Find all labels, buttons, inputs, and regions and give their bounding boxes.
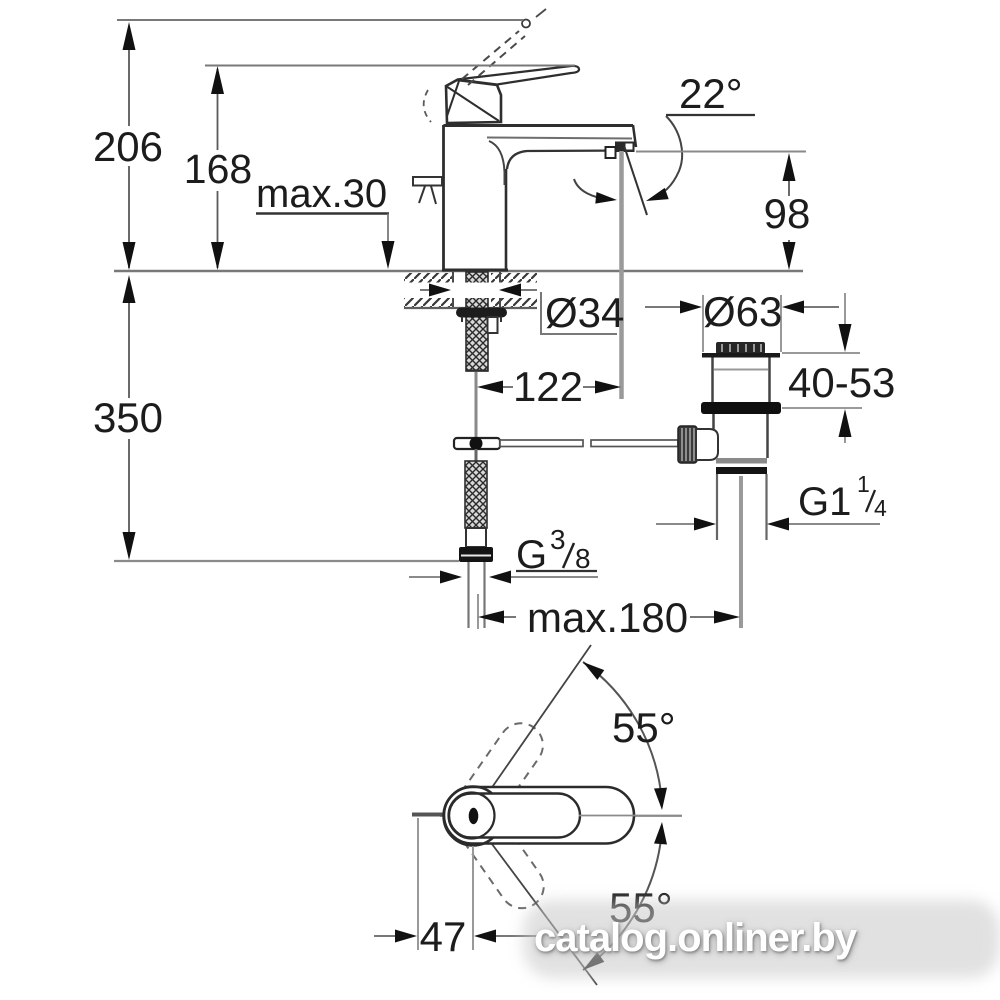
svg-text:168: 168 bbox=[184, 146, 252, 192]
shank washer bbox=[456, 308, 507, 323]
svg-text:22°: 22° bbox=[679, 70, 743, 117]
dimension G1 1/4 bbox=[656, 471, 887, 531]
horizontal linkage rod bbox=[500, 440, 678, 447]
svg-text:max.180: max.180 bbox=[527, 594, 688, 641]
counter cross-section hatching right bbox=[491, 273, 537, 307]
hose nut G3/8 bbox=[459, 547, 493, 562]
mounting hole edges bbox=[453, 272, 500, 307]
flexible hose bbox=[465, 461, 487, 528]
spout underside bbox=[489, 141, 634, 185]
dimension 98 bbox=[636, 152, 810, 271]
svg-text:Ø63: Ø63 bbox=[703, 288, 782, 335]
handle swing arc (dashed) bbox=[424, 90, 431, 122]
top view handle inner pill bbox=[449, 794, 580, 838]
handle lever bbox=[457, 66, 579, 85]
dimension 55 degrees lower bbox=[609, 884, 673, 931]
dimension 22 degrees bbox=[646, 70, 755, 201]
svg-text:40-53: 40-53 bbox=[788, 359, 895, 406]
svg-text:4: 4 bbox=[874, 495, 887, 521]
top view inner ring bbox=[449, 793, 495, 839]
svg-text:max.30: max.30 bbox=[256, 172, 387, 216]
dimension 40-53 bbox=[782, 293, 895, 443]
faucet body bbox=[442, 125, 508, 271]
svg-text:206: 206 bbox=[93, 123, 163, 170]
dimension 206 bbox=[93, 20, 523, 270]
top view center line bbox=[440, 815, 682, 817]
drain gasket bbox=[701, 402, 781, 414]
drain linkage knob bbox=[678, 426, 718, 463]
svg-text:G1: G1 bbox=[798, 480, 851, 524]
drain center line bbox=[739, 476, 743, 628]
dimension diameter 34 bbox=[404, 283, 624, 337]
dimension diameter 63 bbox=[645, 288, 839, 335]
dimension 55 degrees upper bbox=[612, 704, 676, 751]
drain funnel body bbox=[713, 358, 770, 404]
top view center line through handle bbox=[579, 815, 682, 817]
svg-text:122: 122 bbox=[513, 363, 583, 410]
drain tailpipe walls bbox=[717, 474, 767, 540]
55 degree arc lower bbox=[583, 822, 667, 970]
drain knurled cap bbox=[716, 342, 765, 354]
svg-text:55°: 55° bbox=[612, 704, 676, 751]
spout inner top line bbox=[487, 138, 632, 139]
hose ferrule bbox=[466, 528, 486, 547]
top view handle swing dashed position lower bbox=[441, 784, 552, 917]
watermark catalog.onliner.by bbox=[523, 900, 1000, 978]
drain pull rod knob bbox=[413, 177, 442, 204]
counter cross-section hatching left bbox=[404, 273, 454, 307]
supply pipe ends bbox=[469, 562, 485, 628]
drain lower body bbox=[714, 414, 768, 458]
threaded shank bbox=[466, 272, 488, 371]
pull rod bbox=[475, 372, 478, 437]
top view handle swing dashed position upper bbox=[440, 715, 551, 848]
handle raised position (dashed) bbox=[462, 9, 546, 85]
svg-text:47: 47 bbox=[420, 913, 467, 960]
55 degree arc upper bbox=[583, 662, 667, 810]
drain flange bbox=[702, 353, 780, 358]
22 degree tilt line bbox=[625, 147, 648, 215]
dimension 47 bbox=[374, 818, 540, 960]
aerator outlet bbox=[606, 142, 635, 159]
counter reference line bbox=[114, 270, 803, 272]
handle base bbox=[446, 80, 501, 123]
dimension 350 bbox=[93, 275, 459, 561]
dimension 168 bbox=[184, 66, 575, 271]
top view spout stub bbox=[412, 813, 443, 817]
water stream bbox=[619, 151, 624, 399]
55 degree diagonal upper bbox=[486, 645, 591, 796]
dimension 122 bbox=[477, 363, 621, 410]
drain thread bands bbox=[716, 458, 767, 474]
svg-text:catalog.onliner.by: catalog.onliner.by bbox=[534, 916, 858, 960]
55 degree diagonal lower bbox=[486, 836, 597, 985]
svg-text:98: 98 bbox=[764, 190, 811, 237]
dimension G 3/8 bbox=[409, 524, 598, 584]
svg-text:1: 1 bbox=[857, 471, 870, 497]
faucet spout top edge bbox=[444, 125, 637, 147]
top view index dot bbox=[469, 808, 479, 824]
svg-text:8: 8 bbox=[575, 543, 591, 574]
svg-text:Ø34: Ø34 bbox=[545, 289, 624, 336]
linkage clamp bbox=[454, 437, 500, 461]
top view handle outer pill bbox=[444, 787, 634, 844]
svg-text:3: 3 bbox=[550, 524, 566, 555]
dimension max.30 bbox=[256, 172, 395, 269]
stream swing arrow left bbox=[574, 179, 617, 204]
dimension max.180 bbox=[478, 594, 740, 641]
shank side stub bbox=[488, 317, 498, 333]
svg-text:350: 350 bbox=[93, 394, 163, 441]
counter underside line bbox=[404, 307, 537, 309]
pop-up drain extension lines bbox=[703, 295, 781, 352]
top view outer ring bbox=[444, 787, 503, 846]
